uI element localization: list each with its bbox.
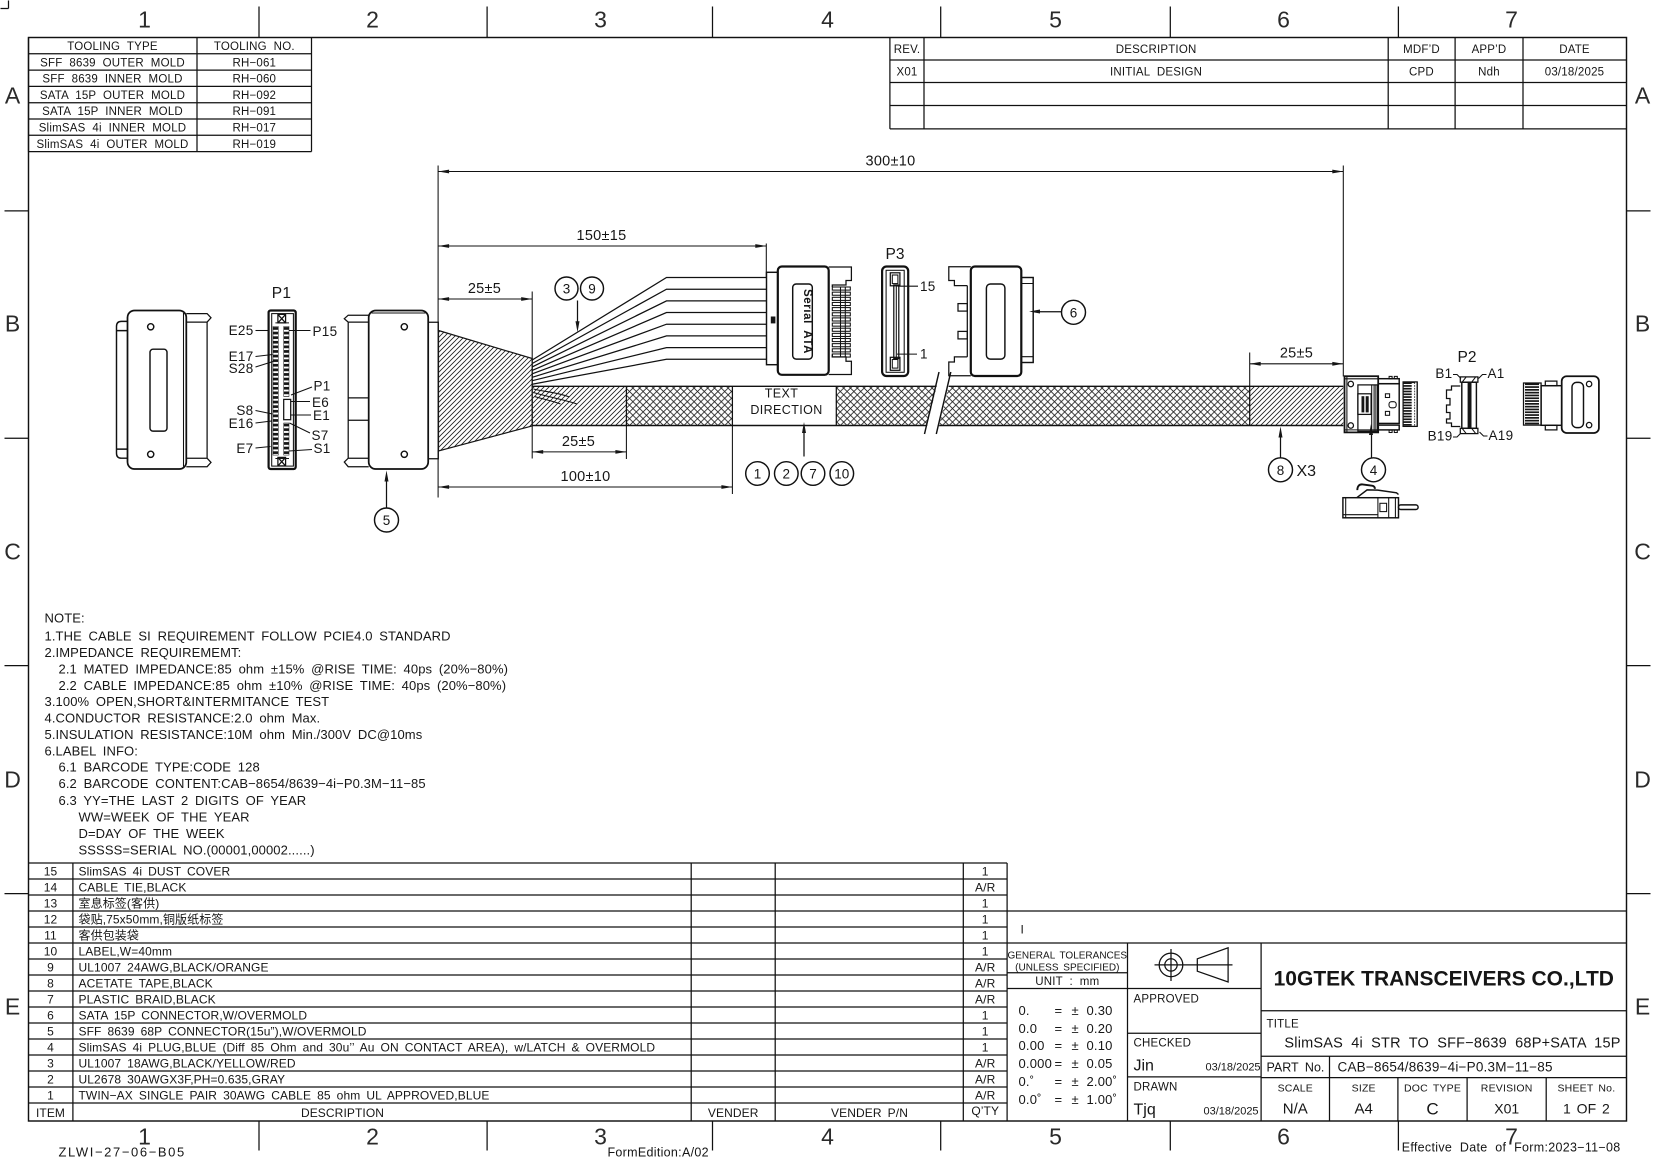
svg-text:N/A: N/A — [1283, 1101, 1308, 1118]
svg-text:1: 1 — [982, 896, 989, 910]
svg-text:10GTEK TRANSCEIVERS CO.,LTD: 10GTEK TRANSCEIVERS CO.,LTD — [1274, 968, 1614, 991]
svg-text:15: 15 — [44, 864, 58, 878]
svg-text:A: A — [1635, 83, 1651, 109]
latch detail — [1343, 484, 1418, 517]
svg-text:UL1007 18AWG,BLACK/YELLOW/RED: UL1007 18AWG,BLACK/YELLOW/RED — [79, 1056, 296, 1070]
svg-text:SlimSAS 4i OUTER MOLD: SlimSAS 4i OUTER MOLD — [36, 139, 188, 151]
svg-text:DESCRIPTION: DESCRIPTION — [301, 1106, 384, 1120]
svg-text:6: 6 — [1277, 7, 1290, 33]
svg-text:UNIT : mm: UNIT : mm — [1035, 976, 1099, 988]
svg-text:B: B — [1635, 311, 1650, 337]
svg-text:7: 7 — [809, 467, 817, 482]
dimension 100±10 — [438, 469, 732, 489]
svg-text:TEXT: TEXT — [765, 387, 799, 401]
svg-text:CAB−8654/8639−4i−P0.3M−11−85: CAB−8654/8639−4i−P0.3M−11−85 — [1338, 1060, 1553, 1075]
connector SlimSAS 4i plug — [1345, 376, 1418, 432]
svg-text:5: 5 — [1049, 1124, 1062, 1150]
svg-text:B: B — [5, 311, 20, 337]
svg-text:A/R: A/R — [975, 992, 996, 1006]
svg-text:5: 5 — [383, 513, 391, 528]
svg-text:4: 4 — [821, 7, 834, 33]
svg-text:=: = — [1055, 1003, 1063, 1018]
svg-text:10: 10 — [44, 944, 58, 958]
svg-text:REV.: REV. — [894, 44, 921, 56]
svg-text:TOOLING TYPE: TOOLING TYPE — [67, 41, 158, 53]
svg-text:I: I — [1021, 923, 1024, 937]
connector P3 face view — [882, 246, 936, 376]
connector SFF-8639 overmold — [344, 311, 438, 470]
svg-text:3: 3 — [594, 1124, 607, 1150]
svg-text:E16: E16 — [229, 416, 254, 431]
svg-text:RH−019: RH−019 — [232, 139, 276, 151]
svg-text:±: ± — [1072, 1092, 1079, 1107]
svg-text:SlimSAS 4i INNER MOLD: SlimSAS 4i INNER MOLD — [39, 123, 187, 135]
svg-text:300±10: 300±10 — [865, 154, 915, 170]
dimension 25±5 right — [1250, 346, 1344, 366]
svg-text:A/R: A/R — [975, 976, 996, 990]
svg-text:2.IMPEDANCE REQUIREMEMT:: 2.IMPEDANCE REQUIREMEMT: — [45, 645, 242, 660]
connector dust cover left — [117, 311, 212, 470]
svg-text:0.: 0. — [1019, 1003, 1030, 1018]
svg-text:SCALE: SCALE — [1278, 1083, 1313, 1095]
BOM table — [29, 863, 1008, 1121]
svg-text:5: 5 — [1049, 7, 1062, 33]
svg-text:RH−061: RH−061 — [232, 57, 276, 69]
svg-text:6.LABEL INFO:: 6.LABEL INFO: — [45, 744, 138, 759]
svg-text:S28: S28 — [229, 361, 254, 376]
svg-text:DOC TYPE: DOC TYPE — [1404, 1083, 1461, 1095]
svg-text:13: 13 — [44, 896, 58, 910]
connector SATA 15P plug — [767, 267, 852, 375]
svg-text:D=DAY OF THE WEEK: D=DAY OF THE WEEK — [79, 826, 225, 841]
svg-text:RH−091: RH−091 — [232, 106, 276, 118]
svg-text:C: C — [1634, 539, 1651, 565]
svg-text:03/18/2025: 03/18/2025 — [1206, 1062, 1261, 1074]
svg-text:03/18/2025: 03/18/2025 — [1545, 67, 1605, 79]
svg-text:P15: P15 — [313, 324, 338, 339]
svg-text:VENDER: VENDER — [708, 1106, 759, 1120]
svg-text:14: 14 — [44, 880, 58, 894]
svg-text:DRAWN: DRAWN — [1134, 1082, 1178, 1094]
svg-text:RH−060: RH−060 — [232, 74, 276, 86]
svg-text:=: = — [1055, 1021, 1063, 1036]
svg-text:X3: X3 — [1297, 463, 1317, 480]
svg-text:11: 11 — [44, 928, 57, 942]
svg-text:CABLE TIE,BLACK: CABLE TIE,BLACK — [79, 880, 187, 894]
svg-text:1: 1 — [754, 467, 762, 482]
svg-text:3: 3 — [563, 282, 571, 297]
svg-text:1: 1 — [982, 944, 989, 958]
dimension 150±15 — [438, 228, 766, 248]
svg-text:Ndh: Ndh — [1478, 67, 1500, 79]
svg-text:7: 7 — [1505, 7, 1518, 33]
svg-text:SlimSAS 4i STR TO SFF−8639 68P: SlimSAS 4i STR TO SFF−8639 68P+SATA 15P — [1284, 1036, 1620, 1052]
wires — [532, 278, 766, 385]
svg-text:4: 4 — [47, 1040, 54, 1054]
svg-text:B1: B1 — [1435, 366, 1452, 381]
svg-text:2.00˚: 2.00˚ — [1087, 1074, 1118, 1089]
dimension 25±5 left — [438, 281, 532, 301]
svg-text:Tjq: Tjq — [1134, 1102, 1156, 1119]
svg-text:DATE: DATE — [1559, 44, 1590, 56]
svg-text:C: C — [4, 539, 21, 565]
svg-text:RH−017: RH−017 — [232, 123, 276, 135]
dimension 25±5 lower — [532, 434, 626, 454]
corner mark — [1, 1, 9, 9]
svg-text:P3: P3 — [886, 246, 905, 263]
dimension 300±10 — [438, 154, 1343, 174]
svg-text:A/R: A/R — [975, 1072, 996, 1086]
svg-text:6: 6 — [47, 1008, 54, 1022]
svg-text:1: 1 — [982, 864, 989, 878]
connector SATA 15P receptacle — [949, 267, 1033, 377]
svg-text:NOTE:: NOTE: — [45, 611, 85, 626]
svg-text:D: D — [1634, 767, 1651, 793]
svg-text:X01: X01 — [1494, 1101, 1519, 1117]
svg-text:CPD: CPD — [1409, 67, 1434, 79]
svg-text:1: 1 — [47, 1088, 54, 1102]
svg-text:1 OF 2: 1 OF 2 — [1563, 1101, 1610, 1117]
connector SlimSAS dust cover right — [1524, 376, 1599, 433]
svg-text:E: E — [5, 994, 20, 1020]
revision table — [890, 38, 1627, 129]
connector P1 face view — [269, 285, 296, 469]
svg-text:1: 1 — [982, 928, 989, 942]
balloon 8 X3 — [1269, 427, 1317, 482]
svg-text:±: ± — [1072, 1038, 1079, 1053]
svg-text:APPROVED: APPROVED — [1134, 994, 1200, 1006]
top zone ticks — [259, 7, 1398, 38]
svg-text:25±5: 25±5 — [562, 434, 595, 450]
svg-text:1.THE CABLE SI REQUIREMENT FOL: 1.THE CABLE SI REQUIREMENT FOLLOW PCIE4.… — [45, 629, 451, 644]
svg-text:A: A — [5, 83, 21, 109]
projection symbol — [1155, 948, 1233, 982]
svg-text:0.000: 0.000 — [1019, 1056, 1053, 1071]
svg-text:TOOLING NO.: TOOLING NO. — [214, 41, 295, 53]
svg-text:3: 3 — [47, 1056, 54, 1070]
svg-text:DIRECTION: DIRECTION — [750, 403, 822, 417]
svg-text:室息标签(客供): 室息标签(客供) — [79, 895, 160, 910]
svg-text:=: = — [1055, 1074, 1063, 1089]
svg-text:E: E — [1635, 994, 1650, 1020]
svg-text:WW=WEEK OF THE YEAR: WW=WEEK OF THE YEAR — [79, 810, 250, 825]
overmold fan hatch — [439, 331, 533, 452]
svg-text:DESCRIPTION: DESCRIPTION — [1116, 44, 1197, 56]
svg-text:0.00: 0.00 — [1019, 1038, 1045, 1053]
notes — [45, 611, 509, 858]
svg-text:1: 1 — [982, 912, 989, 926]
svg-text:0.0˚: 0.0˚ — [1019, 1092, 1042, 1107]
svg-text:PART No.: PART No. — [1267, 1061, 1325, 1075]
svg-text:5.INSULATION RESISTANCE:10M oh: 5.INSULATION RESISTANCE:10M ohm Min./300… — [45, 727, 423, 742]
svg-text:A4: A4 — [1355, 1101, 1373, 1118]
svg-text:A1: A1 — [1488, 366, 1505, 381]
svg-text:8: 8 — [47, 976, 54, 990]
svg-text:±: ± — [1072, 1074, 1079, 1089]
svg-text:UL2678 30AWGX3F,PH=0.635,GRAY: UL2678 30AWGX3F,PH=0.635,GRAY — [79, 1072, 286, 1086]
svg-text:=: = — [1055, 1038, 1063, 1053]
svg-text:SFF 8639 INNER MOLD: SFF 8639 INNER MOLD — [42, 74, 182, 86]
balloon 5 — [375, 471, 399, 533]
svg-text:1.00˚: 1.00˚ — [1087, 1092, 1118, 1107]
svg-text:7: 7 — [47, 992, 54, 1006]
svg-text:SATA 15P INNER MOLD: SATA 15P INNER MOLD — [42, 106, 183, 118]
svg-text:P2: P2 — [1458, 349, 1477, 366]
svg-text:10: 10 — [834, 467, 849, 482]
svg-text:A/R: A/R — [975, 960, 996, 974]
svg-text:X01: X01 — [896, 67, 917, 79]
bottom zone ticks — [259, 1121, 1398, 1151]
svg-text:Jin: Jin — [1134, 1058, 1154, 1075]
svg-text:15: 15 — [920, 279, 936, 294]
svg-text:C: C — [1426, 1100, 1438, 1119]
svg-text:5: 5 — [47, 1024, 54, 1038]
svg-text:2.1 MATED IMPEDANCE:85 ohm ±15: 2.1 MATED IMPEDANCE:85 ohm ±15% @RISE TI… — [59, 662, 509, 677]
svg-text:4.CONDUCTOR RESISTANCE:2.0 ohm: 4.CONDUCTOR RESISTANCE:2.0 ohm Max. — [45, 711, 321, 726]
svg-text:8: 8 — [1277, 463, 1285, 478]
title block — [1007, 911, 1626, 1121]
svg-text:9: 9 — [47, 960, 54, 974]
svg-text:2: 2 — [47, 1072, 54, 1086]
svg-text:SSSSS=SERIAL NO.(00001,00002..: SSSSS=SERIAL NO.(00001,00002......) — [79, 842, 315, 857]
svg-text:VENDER P/N: VENDER P/N — [831, 1106, 908, 1120]
svg-text:P1: P1 — [314, 379, 331, 394]
svg-text:25±5: 25±5 — [1280, 346, 1313, 362]
svg-text:APP’D: APP’D — [1472, 44, 1507, 56]
svg-text:=: = — [1055, 1092, 1063, 1107]
svg-text:ZLWI−27−06−B05: ZLWI−27−06−B05 — [59, 1145, 186, 1160]
extension lines — [438, 166, 1343, 498]
svg-text:S1: S1 — [314, 441, 331, 456]
connector P2 face view — [1428, 349, 1514, 444]
svg-text:袋贴,75x50mm,铜版纸标签: 袋贴,75x50mm,铜版纸标签 — [79, 911, 224, 926]
svg-text:6: 6 — [1277, 1124, 1290, 1150]
svg-text:SATA 15P OUTER MOLD: SATA 15P OUTER MOLD — [40, 90, 185, 102]
svg-text:0.10: 0.10 — [1087, 1038, 1113, 1053]
P1 pin labels — [229, 323, 338, 456]
cable break — [925, 371, 953, 435]
cable band — [532, 386, 1343, 425]
svg-text:Q’TY: Q’TY — [971, 1104, 999, 1118]
svg-text:(UNLESS SPECIFIED): (UNLESS SPECIFIED) — [1015, 963, 1119, 974]
svg-text:E1: E1 — [313, 408, 330, 423]
svg-text:6.1 BARCODE TYPE:CODE 128: 6.1 BARCODE TYPE:CODE 128 — [59, 760, 260, 775]
svg-text:SHEET No.: SHEET No. — [1557, 1083, 1615, 1095]
svg-text:A/R: A/R — [975, 1088, 996, 1102]
svg-text:LABEL,W=40mm: LABEL,W=40mm — [79, 944, 173, 958]
svg-text:E25: E25 — [229, 323, 254, 338]
svg-text:客供包装袋: 客供包装袋 — [79, 927, 140, 942]
svg-text:±: ± — [1072, 1003, 1079, 1018]
svg-text:E7: E7 — [236, 441, 253, 456]
svg-text:Serial ATA: Serial ATA — [801, 289, 813, 354]
svg-text:FormEdition:A/02: FormEdition:A/02 — [608, 1146, 709, 1160]
svg-text:6.2 BARCODE CONTENT:CAB−8654/8: 6.2 BARCODE CONTENT:CAB−8654/8639−4i−P0.… — [59, 776, 426, 791]
svg-text:TWIN−AX SINGLE PAIR 30AWG CABL: TWIN−AX SINGLE PAIR 30AWG CABLE 85 ohm U… — [79, 1088, 490, 1102]
svg-text:=: = — [1055, 1056, 1063, 1071]
svg-text:12: 12 — [44, 912, 58, 926]
svg-text:UL1007 24AWG,BLACK/ORANGE: UL1007 24AWG,BLACK/ORANGE — [79, 960, 269, 974]
svg-text:±: ± — [1072, 1056, 1079, 1071]
label TEXT DIRECTION — [750, 387, 822, 457]
svg-text:0.30: 0.30 — [1087, 1003, 1113, 1018]
svg-text:1: 1 — [982, 1008, 989, 1022]
svg-text:0.0: 0.0 — [1019, 1021, 1038, 1036]
svg-text:SFF 8639 68P CONNECTOR(15u”),W: SFF 8639 68P CONNECTOR(15u”),W/OVERMOLD — [79, 1024, 367, 1038]
svg-text:03/18/2025: 03/18/2025 — [1204, 1106, 1259, 1118]
svg-text:1: 1 — [982, 1040, 989, 1054]
svg-text:B19: B19 — [1428, 429, 1453, 444]
svg-text:3.100% OPEN,SHORT&INTERMITANCE: 3.100% OPEN,SHORT&INTERMITANCE TEST — [45, 694, 330, 709]
svg-text:A/R: A/R — [975, 1056, 996, 1070]
svg-text:0.20: 0.20 — [1087, 1021, 1113, 1036]
balloon 4 — [1362, 424, 1386, 482]
svg-text:0.05: 0.05 — [1087, 1056, 1113, 1071]
svg-text:P1: P1 — [272, 285, 292, 302]
svg-text:150±15: 150±15 — [576, 228, 626, 244]
svg-text:SATA 15P CONNECTOR,W/OVERMOLD: SATA 15P CONNECTOR,W/OVERMOLD — [79, 1008, 308, 1022]
svg-text:4: 4 — [1370, 463, 1378, 478]
svg-text:2.2 CABLE IMPEDANCE:85 ohm ±10: 2.2 CABLE IMPEDANCE:85 ohm ±10% @RISE TI… — [59, 678, 507, 693]
left zone ticks — [5, 211, 29, 894]
svg-text:TITLE: TITLE — [1267, 1019, 1299, 1031]
balloons 1 2 7 10 — [746, 462, 854, 486]
tooling table — [29, 38, 312, 152]
svg-text:3: 3 — [594, 7, 607, 33]
svg-text:REVISION: REVISION — [1481, 1083, 1533, 1095]
svg-text:SlimSAS 4i DUST COVER: SlimSAS 4i DUST COVER — [79, 864, 231, 878]
svg-text:SFF 8639 OUTER MOLD: SFF 8639 OUTER MOLD — [40, 57, 185, 69]
svg-text:D: D — [4, 767, 21, 793]
svg-text:2: 2 — [366, 1124, 379, 1150]
svg-text:MDF’D: MDF’D — [1403, 44, 1440, 56]
svg-text:Effective Date of Form:2023−11: Effective Date of Form:2023−11−08 — [1402, 1141, 1621, 1155]
right zone ticks — [1627, 211, 1651, 894]
svg-text:±: ± — [1072, 1021, 1079, 1036]
svg-text:1: 1 — [920, 347, 928, 362]
svg-text:1: 1 — [982, 1024, 989, 1038]
balloon 6 — [1029, 300, 1086, 324]
svg-text:A19: A19 — [1489, 428, 1514, 443]
svg-text:RH−092: RH−092 — [232, 90, 276, 102]
svg-text:INITIAL DESIGN: INITIAL DESIGN — [1110, 67, 1202, 79]
svg-text:ACETATE TAPE,BLACK: ACETATE TAPE,BLACK — [79, 976, 213, 990]
svg-text:A/R: A/R — [975, 880, 996, 894]
svg-text:SIZE: SIZE — [1352, 1083, 1376, 1095]
svg-text:CHECKED: CHECKED — [1134, 1038, 1192, 1050]
svg-text:6.3 YY=THE LAST 2 DIGITS OF YE: 6.3 YY=THE LAST 2 DIGITS OF YEAR — [59, 793, 307, 808]
svg-text:ITEM: ITEM — [36, 1106, 65, 1120]
svg-text:2: 2 — [783, 467, 791, 482]
balloon 3 9 — [555, 277, 604, 332]
svg-text:GENERAL TOLERANCES: GENERAL TOLERANCES — [1007, 951, 1127, 962]
svg-text:6: 6 — [1070, 305, 1078, 320]
svg-text:PLASTIC BRAID,BLACK: PLASTIC BRAID,BLACK — [79, 992, 216, 1006]
svg-text:25±5: 25±5 — [468, 281, 501, 297]
svg-text:SlimSAS 4i PLUG,BLUE (Diff 85: SlimSAS 4i PLUG,BLUE (Diff 85 Ohm and 30… — [79, 1040, 656, 1054]
svg-text:9: 9 — [588, 282, 596, 297]
svg-text:1: 1 — [138, 7, 151, 33]
svg-text:4: 4 — [821, 1124, 834, 1150]
svg-text:2: 2 — [366, 7, 379, 33]
svg-text:100±10: 100±10 — [560, 469, 610, 485]
svg-text:0.˚: 0.˚ — [1019, 1074, 1035, 1089]
